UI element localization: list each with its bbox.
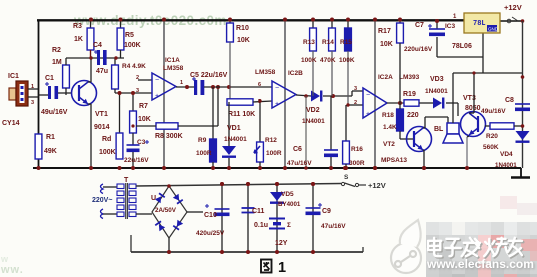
svg-text:R13: R13 [303,39,315,46]
svg-text:LM393: LM393 [399,74,420,81]
svg-text:C1: C1 [45,75,54,82]
svg-text:100K: 100K [301,57,317,64]
svg-text:3: 3 [31,100,34,106]
svg-text:R3: R3 [73,23,82,30]
svg-text:10K: 10K [138,116,151,123]
svg-text:R16: R16 [351,146,363,153]
svg-text:+: + [275,101,279,108]
svg-text:1N4001: 1N4001 [302,118,325,125]
svg-text:IC3: IC3 [445,23,456,30]
svg-text:2: 2 [136,75,139,81]
svg-text:R1: R1 [46,134,55,141]
svg-text:T: T [124,177,129,184]
svg-text:C7: C7 [415,22,424,29]
svg-text:R20: R20 [486,133,498,140]
svg-text:9014: 9014 [94,124,110,131]
svg-text:IC1: IC1 [8,73,19,80]
svg-text:420u/25V: 420u/25V [196,230,225,237]
svg-text:220u/16V: 220u/16V [404,46,433,53]
svg-text:LM358: LM358 [255,69,276,76]
svg-text:C10: C10 [204,212,217,219]
svg-text:+: + [366,111,370,118]
svg-text:220: 220 [407,112,419,119]
svg-text:−: − [275,85,279,92]
svg-text:CY14: CY14 [2,120,20,127]
svg-text:470K: 470K [320,57,336,64]
svg-text:6: 6 [258,82,261,88]
svg-text:+12V: +12V [368,181,386,190]
svg-text:−: − [366,92,370,99]
svg-text:MPSA13: MPSA13 [381,157,407,164]
svg-text:78L: 78L [473,20,486,28]
svg-text:VD1: VD1 [227,125,241,132]
svg-text:0.1u: 0.1u [254,222,268,229]
svg-text:1N4001: 1N4001 [425,88,448,95]
svg-text:C6: C6 [293,146,302,153]
svg-text:Σ: Σ [287,222,291,229]
svg-text:1K: 1K [74,36,83,43]
svg-text:10K: 10K [237,37,250,44]
svg-text:R2: R2 [52,47,61,54]
svg-text:R4 4.9K: R4 4.9K [122,63,146,70]
svg-text:BY4001: BY4001 [278,201,301,208]
svg-text:2: 2 [354,100,357,106]
svg-text:1: 1 [180,80,183,86]
svg-text:BL: BL [434,126,444,133]
svg-text:1: 1 [278,260,286,276]
svg-text:R9: R9 [198,137,207,144]
svg-text:560K: 560K [483,144,499,151]
svg-text:10K: 10K [380,41,393,48]
svg-text:+: + [155,93,159,100]
svg-text:47u: 47u [96,68,108,75]
svg-text:49u/16V: 49u/16V [41,109,68,116]
svg-text:1.4K: 1.4K [383,124,397,131]
svg-text:C11: C11 [252,208,265,215]
svg-text:1N4001: 1N4001 [495,162,517,169]
svg-text:78L06: 78L06 [452,43,472,50]
svg-text:+12V: +12V [504,3,522,12]
svg-text:C3: C3 [137,139,146,146]
svg-text:R14: R14 [322,39,334,46]
svg-text:100K: 100K [124,42,141,49]
svg-text:R17: R17 [378,28,391,35]
svg-text:1: 1 [31,84,34,90]
svg-text:300R: 300R [349,160,365,167]
svg-text:R11 10K: R11 10K [228,111,255,118]
svg-text:3: 3 [136,88,139,94]
svg-text:IC1A: IC1A [165,57,180,64]
svg-text:12Y: 12Y [275,240,288,247]
svg-text:49u/16V: 49u/16V [481,108,506,115]
svg-text:w: w [0,254,9,264]
svg-text:5: 5 [258,99,261,105]
svg-text:IC2B: IC2B [288,70,303,77]
svg-text:VD5: VD5 [281,191,294,198]
svg-text:100K: 100K [99,149,116,156]
svg-text:U: U [151,195,156,202]
svg-text:C4: C4 [93,42,102,49]
svg-text:R8 300K: R8 300K [155,133,183,140]
svg-text:R10: R10 [236,25,249,32]
svg-text:220V~: 220V~ [92,197,112,204]
svg-text:R12: R12 [265,137,277,144]
svg-text:1N4001: 1N4001 [224,136,247,143]
svg-text:R7: R7 [139,103,148,110]
svg-text:Rd: Rd [102,136,111,143]
svg-text:LM358: LM358 [163,65,184,72]
svg-text:C9: C9 [322,208,331,215]
svg-text:47u/16V: 47u/16V [321,223,346,230]
svg-text:VD3: VD3 [430,76,444,83]
svg-text:VD4: VD4 [500,151,513,158]
svg-text:GND: GND [488,27,499,32]
svg-text:ww.: ww. [0,264,24,276]
svg-text:C8: C8 [505,97,514,104]
svg-text:100R: 100R [196,150,212,157]
svg-text:49K: 49K [44,148,57,155]
svg-text:VT1: VT1 [95,111,108,118]
svg-text:R15: R15 [340,39,352,46]
svg-text:IC2A: IC2A [378,74,393,81]
svg-text:3: 3 [354,86,357,92]
svg-text:22u/16V: 22u/16V [124,157,149,164]
svg-text:VT2: VT2 [383,141,395,148]
svg-text:1M: 1M [52,59,62,66]
svg-text:47u/16V: 47u/16V [287,160,312,167]
svg-text:S: S [344,174,349,181]
svg-text:100R: 100R [266,150,282,157]
svg-text:100K: 100K [339,57,355,64]
svg-text:R5: R5 [125,32,134,39]
svg-text:VD2: VD2 [306,107,320,114]
svg-text:R19: R19 [403,91,416,98]
svg-text:C5 22u/16V: C5 22u/16V [190,72,228,79]
svg-text:R18: R18 [382,112,394,119]
svg-text:−: − [155,77,159,84]
svg-text:2A/50V: 2A/50V [155,207,177,214]
